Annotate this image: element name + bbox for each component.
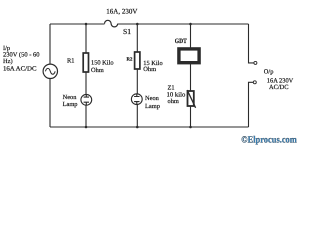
svg-text:ohm: ohm	[168, 98, 179, 105]
svg-text:16A AC/DC: 16A AC/DC	[3, 66, 37, 73]
svg-text:16A, 230V: 16A, 230V	[106, 8, 137, 16]
svg-text:Ohm: Ohm	[91, 67, 104, 74]
svg-text:Neon: Neon	[63, 94, 78, 101]
svg-text:GDT: GDT	[175, 38, 187, 45]
svg-text:Hz): Hz)	[3, 58, 13, 65]
svg-text:Lamp: Lamp	[145, 103, 160, 110]
svg-text:Neon: Neon	[145, 95, 160, 102]
svg-text:©Elprocus.com: ©Elprocus.com	[241, 135, 296, 146]
svg-text:150 Kilo: 150 Kilo	[91, 59, 114, 66]
svg-text:AC/DC: AC/DC	[269, 84, 289, 91]
svg-text:S1: S1	[123, 27, 131, 36]
svg-text:O/p: O/p	[264, 68, 274, 75]
svg-text:Lamp: Lamp	[63, 101, 78, 108]
svg-text:Ohm: Ohm	[143, 66, 156, 73]
svg-text:R2: R2	[127, 57, 133, 63]
svg-text:R1: R1	[67, 58, 74, 65]
